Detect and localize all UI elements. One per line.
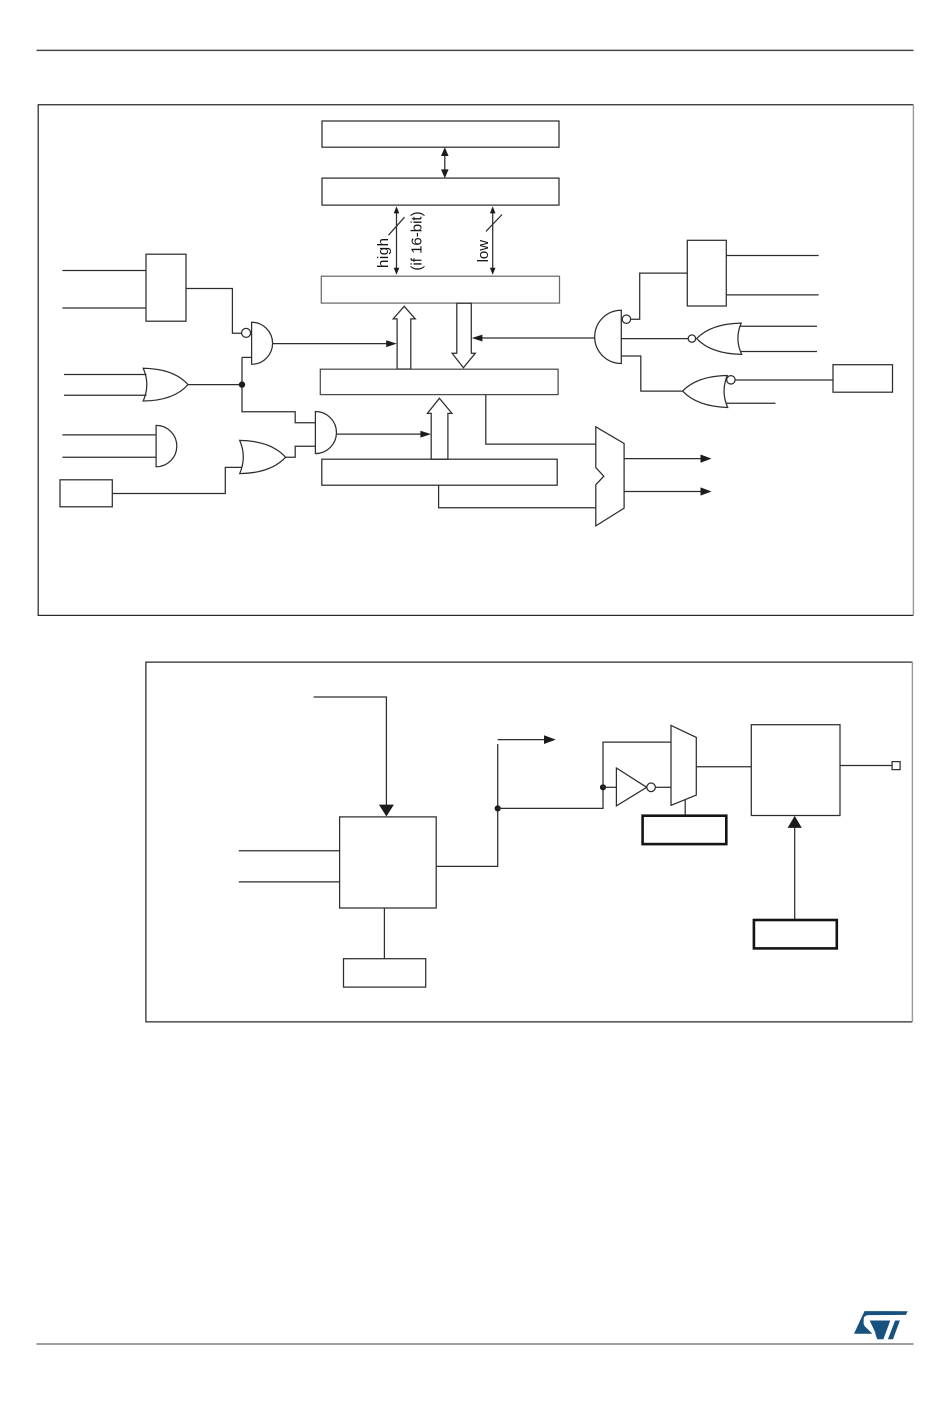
register rect B (capture/compare preload register)	[322, 178, 559, 205]
node arrowhead into bigbox	[379, 805, 394, 817]
wire NAND1 output arrow	[273, 340, 397, 347]
gate NORL output bubble	[688, 335, 695, 342]
block arrow up 2 (input capture)	[427, 398, 452, 459]
register boldrect2 (CC1E)	[754, 920, 837, 948]
gate NORL mirrored	[697, 323, 742, 354]
wire OR1 output	[188, 384, 242, 386]
inverter bubble	[647, 783, 656, 792]
wire bigbox to smallrect	[383, 908, 385, 959]
wire AND3 input 1	[62, 434, 156, 436]
svg-text:(if 16-bit): (if 16-bit)	[409, 211, 426, 270]
block rect2 (divider)	[60, 480, 112, 507]
wire high bus arrow	[394, 206, 400, 274]
node low bus slash	[486, 215, 502, 232]
wire NORL output to ANDL	[621, 338, 688, 340]
gate OR1	[143, 368, 188, 401]
wire box1 input 1	[62, 270, 146, 272]
node arrowhead into box3	[788, 816, 802, 828]
block box1 (input filter & edge detector)	[146, 254, 186, 321]
figure 2 frame	[146, 662, 913, 1022]
wire OR1 input 1	[64, 374, 147, 376]
register rect D (counter)	[320, 369, 558, 394]
block arrow up 1 (compare transfer)	[393, 306, 415, 369]
gate NAND1	[252, 322, 273, 364]
wire box1 input 2	[62, 307, 146, 309]
logo ST	[854, 1311, 908, 1339]
block rect3 (write CCR register)	[833, 365, 893, 393]
gate AND2	[315, 412, 336, 454]
gate ANDL mirrored	[595, 310, 622, 363]
wire bigbox input 1	[239, 850, 340, 852]
wire node2 to mux top	[603, 742, 671, 787]
register boldrect1 (CC1P)	[643, 816, 727, 844]
wire mux2 output	[696, 766, 751, 768]
node output pin pad	[892, 762, 900, 770]
gate ORL bubble	[727, 376, 735, 384]
wire mux output 1	[624, 455, 711, 463]
wire ANDL output arrow	[472, 335, 595, 342]
gate AND3	[156, 425, 177, 466]
register rect E (prescaler)	[322, 459, 557, 485]
wire box2 output 2	[726, 294, 818, 296]
wire ORL input 2	[727, 402, 776, 404]
wire to master mode controller arrow	[498, 735, 556, 744]
wire NORL input 2	[741, 351, 818, 353]
wire rect D to mux	[486, 395, 596, 445]
wire mux2 select	[684, 800, 686, 816]
node junction dot 2	[600, 784, 606, 790]
block box2 (OC1PE register)	[687, 240, 726, 306]
svg-text:high: high	[375, 237, 392, 268]
wire box1 output to NAND1 bubble	[186, 289, 242, 334]
wire node1 to node2	[498, 787, 603, 808]
wire bidirectional arrow A-B	[441, 147, 449, 178]
block smallrect (OC1M register)	[344, 959, 426, 987]
figure 1 frame	[38, 105, 913, 616]
wire node2 to inverter	[603, 786, 616, 788]
wire bigbox output to node1	[436, 744, 498, 866]
multiplexer MUX1	[596, 427, 624, 526]
wire box2 output 1	[726, 255, 818, 257]
gate NAND1 input bubble	[242, 328, 251, 337]
wire OR1 input 2	[64, 394, 147, 396]
wire footer rule	[37, 1343, 914, 1345]
node high bus slash	[389, 217, 405, 235]
gate ANDL input bubble	[622, 315, 630, 323]
wire OR1 output node to NAND1	[242, 356, 252, 358]
multiplexer MUX2	[671, 725, 696, 805]
wire bigbox input 2	[239, 881, 340, 883]
wire box3 output	[840, 765, 892, 767]
wire header rule	[37, 49, 914, 51]
wire boldrect2 to box3	[794, 827, 796, 920]
gate OR2	[240, 440, 286, 473]
wire NORL input 1	[740, 325, 817, 327]
wire AND2 output arrow	[337, 431, 431, 438]
wire OCMR input to bigbox	[314, 697, 387, 806]
wire node vertical	[242, 357, 315, 422]
wire rect E to mux	[439, 485, 596, 508]
register rect C (capture/compare shadow register)	[321, 276, 559, 303]
inverter U1	[616, 768, 646, 806]
block bigbox (output mode controller)	[340, 817, 437, 908]
wire rect2 to OR2	[112, 467, 241, 493]
svg-text:low: low	[475, 240, 492, 263]
register rect A (APB bus interface)	[322, 121, 559, 147]
wire OR2 output to AND2	[286, 446, 316, 457]
node junction dot	[239, 381, 245, 387]
wire ORL bubble to rect3	[735, 379, 833, 381]
node junction dot 1	[495, 805, 501, 811]
wire low bus arrow	[490, 206, 496, 274]
block arrow down (capture transfer)	[452, 303, 475, 368]
gate ORL mirrored	[683, 376, 728, 408]
wire ANDL bubble to box2	[631, 273, 688, 319]
block box3 (output enable circuit)	[751, 725, 840, 816]
wire mux output 2	[624, 487, 711, 495]
wire AND3 input 2	[62, 456, 156, 458]
wire inverter to mux	[655, 786, 671, 788]
wire ANDL bottom input to ORL	[621, 356, 682, 391]
